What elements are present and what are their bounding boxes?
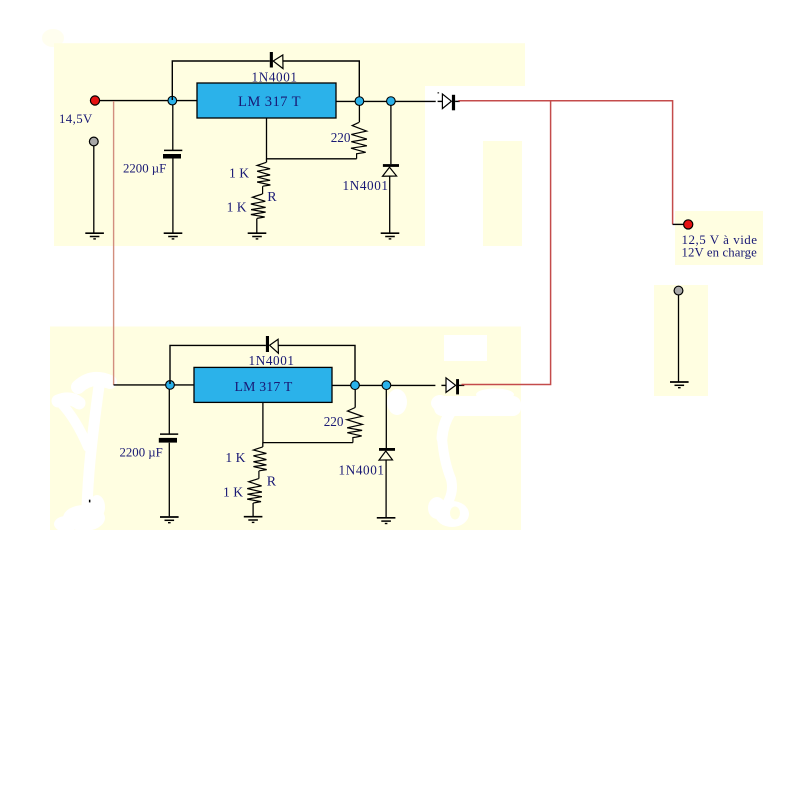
node B bottom output [351, 381, 360, 390]
svg-text:14,5V: 14,5V [59, 112, 93, 126]
yellow hole in eraser loop [450, 507, 460, 520]
svg-text:1 K: 1 K [223, 484, 243, 499]
svg-text:1N4001: 1N4001 [339, 463, 385, 478]
node C bottom output [382, 381, 391, 390]
wire adj to resistor [266, 159, 268, 163]
wire adj junction bottom [263, 403, 353, 443]
white eraser strokes left [58, 379, 110, 507]
resistor R 1K upper [257, 162, 270, 186]
wire red output bottom [462, 101, 551, 385]
wire resistor to ground [256, 218, 258, 233]
wire feedback loop top right [283, 61, 359, 97]
white eraser marks bottom panel [54, 335, 521, 532]
pin grey top left [89, 137, 98, 233]
regulator U1 LM 317 T [197, 83, 336, 118]
node B top output [355, 97, 364, 106]
wire jog between resistors [262, 186, 264, 194]
svg-text:2200 µF: 2200 µF [120, 446, 163, 460]
panel background bottom circuit [50, 327, 521, 531]
diode D4 1N4001 feedback bottom [266, 336, 279, 353]
wire feedback loop bottom left [170, 345, 266, 384]
ground resistor chain bottom [244, 517, 263, 523]
white eraser strokes middle [442, 413, 452, 502]
diode D5 output bottom [446, 378, 459, 395]
wire input bottom [114, 384, 194, 386]
panel background top circuit [54, 43, 525, 246]
panel background right pin [654, 285, 708, 396]
diode D3 1N4001 vertical [383, 164, 400, 176]
dot artifact bottom left [89, 500, 91, 503]
resistor 220 bottom [347, 408, 363, 443]
capacitor C2 2200uF [159, 434, 178, 516]
wire node to capacitor [172, 105, 174, 150]
resistor R 1K lower [251, 194, 266, 218]
svg-text:1N4001: 1N4001 [343, 178, 389, 193]
wire output bottom [332, 384, 435, 386]
diode D2 output top [442, 94, 455, 110]
wire node C to diode D3 [390, 105, 392, 164]
wire feedback loop top left [172, 61, 269, 100]
wire diode D3 to ground [389, 176, 391, 233]
node C top output [387, 97, 396, 106]
resistor R 1K upper bottom [253, 447, 266, 471]
resistor R 1K lower bottom [247, 479, 262, 503]
ground diode D6 [377, 518, 396, 524]
svg-text:2200 µF: 2200 µF [123, 162, 166, 176]
node output red dot [684, 220, 693, 229]
ground right pin [670, 382, 689, 388]
ground left pin [85, 233, 104, 239]
wire node C to diode D6 bottom [385, 389, 387, 448]
svg-text:220: 220 [324, 414, 344, 429]
label output voltage [682, 232, 758, 260]
wire feedback loop bottom right [278, 345, 355, 381]
wire stub after diode D5 [459, 384, 464, 386]
node A top input [168, 96, 177, 105]
wire output top [336, 100, 436, 102]
node input red dot [90, 96, 99, 105]
ground diode D3 [381, 233, 400, 239]
wire to resistor 220 bottom [354, 389, 356, 408]
wire red to lower block [113, 101, 115, 385]
regulator U2 LM 317 T [194, 367, 332, 402]
wire adj junction top [267, 118, 357, 159]
svg-text:220: 220 [331, 130, 351, 145]
svg-text:12V en charge: 12V en charge [682, 246, 758, 260]
ground capacitor C2 [160, 517, 179, 523]
faint corner wisp [42, 29, 64, 47]
svg-text:1 K: 1 K [225, 450, 245, 465]
node A bottom input [166, 381, 175, 390]
panel background output label [675, 211, 763, 265]
wire stub after diode D2 [455, 100, 460, 102]
wire input top [99, 100, 197, 102]
wire node to capacitor C2 [168, 389, 170, 434]
diode D6 1N4001 vertical bottom [379, 448, 395, 460]
wire diode D6 to ground [385, 460, 387, 517]
svg-text:1 K: 1 K [227, 200, 247, 215]
ground resistor chain top [248, 233, 267, 239]
wire jog between resistors bottom [258, 471, 260, 479]
svg-text:1 K: 1 K [229, 166, 249, 181]
svg-text:R: R [267, 190, 277, 205]
ground capacitor C1 [164, 233, 183, 239]
wire to resistor 220 [358, 105, 360, 122]
svg-text:1N4001: 1N4001 [249, 353, 295, 368]
wire red output top [458, 101, 672, 225]
pin grey right [674, 286, 683, 381]
wire stub to output dot [673, 223, 684, 225]
svg-text:LM 317 T: LM 317 T [238, 94, 301, 110]
diode D1 1N4001 feedback [270, 52, 283, 69]
svg-text:LM 317 T: LM 317 T [234, 379, 292, 394]
wire resistor to ground bottom [252, 503, 254, 517]
wire adj to resistor bottom [262, 443, 264, 447]
capacitor C1 2200uF [163, 150, 182, 233]
dot artifact near diode [438, 92, 440, 94]
svg-text:R: R [267, 474, 277, 489]
resistor 220 top [351, 122, 367, 158]
